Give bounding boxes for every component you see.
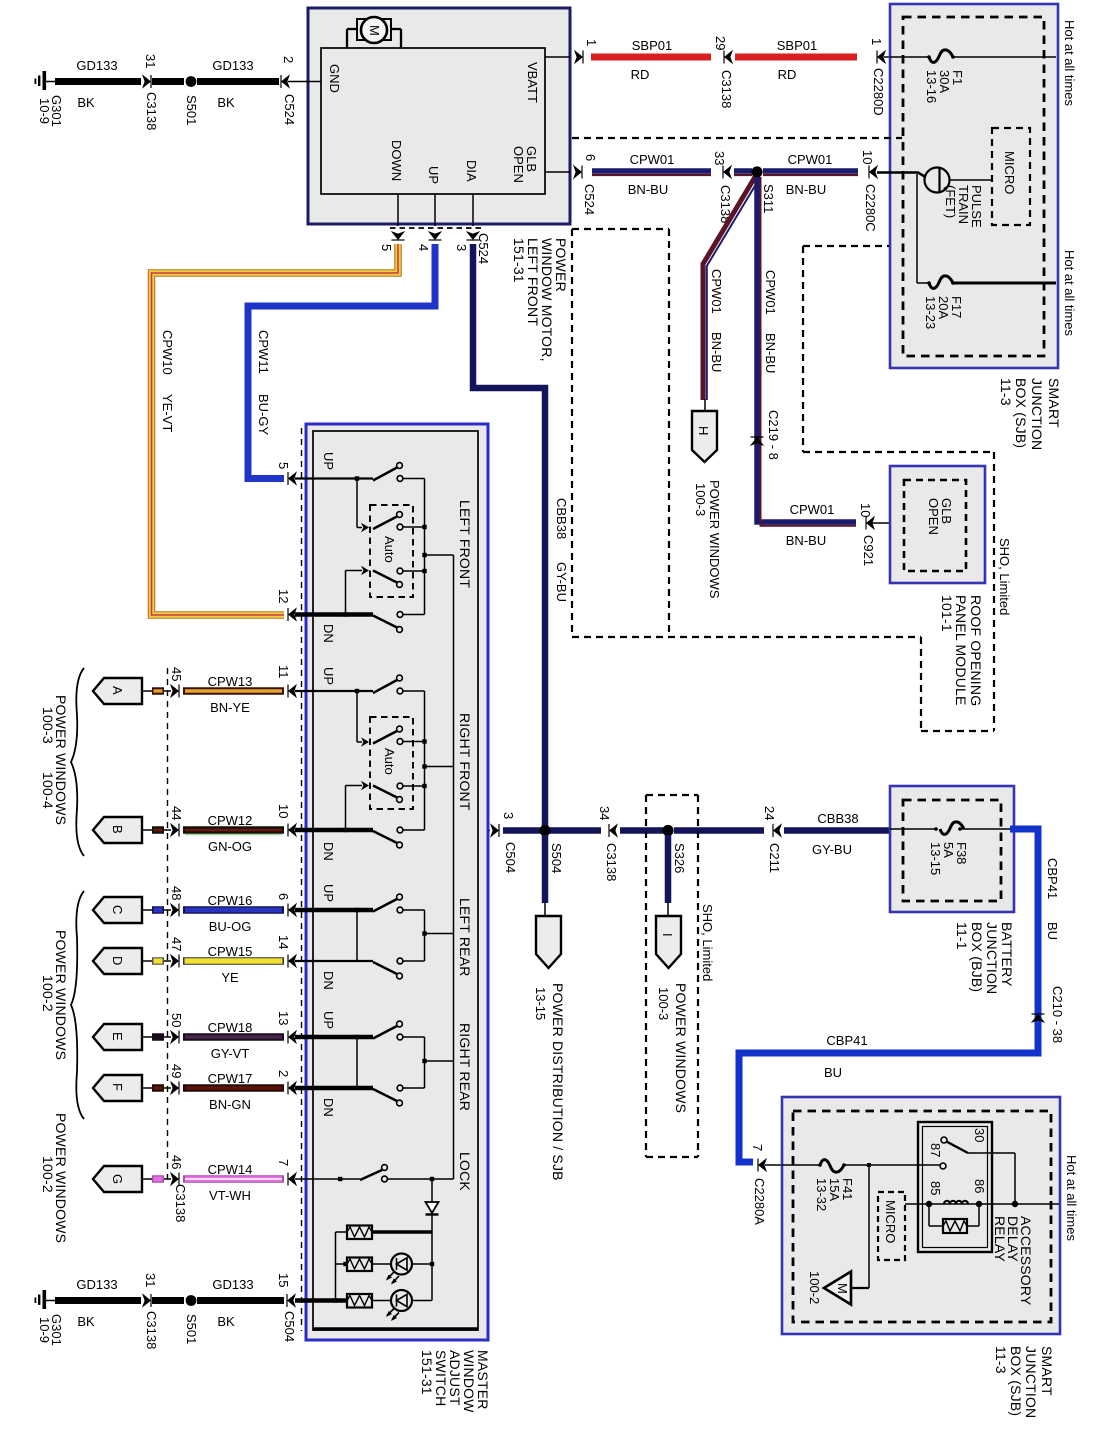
connector C3138 pin 44 xyxy=(169,806,184,837)
ground G301 top xyxy=(35,71,65,127)
svg-text:Hot at all times: Hot at all times xyxy=(1062,20,1077,106)
dashed box around H arrow xyxy=(572,229,921,637)
svg-text:Hot at all times: Hot at all times xyxy=(1062,250,1077,336)
svg-text:GY-VT: GY-VT xyxy=(211,1046,250,1061)
dashed C3138 boundary line (left) xyxy=(167,668,169,1179)
svg-text:151-31: 151-31 xyxy=(419,1350,435,1395)
LOCK feed xyxy=(295,1177,360,1181)
svg-text:YE: YE xyxy=(221,970,239,985)
wire CPW15 YE xyxy=(183,944,284,985)
label GLB OPEN xyxy=(926,498,954,535)
MICRO dashed box (relay) xyxy=(878,1192,905,1260)
svg-text:BN-YE: BN-YE xyxy=(210,700,250,715)
svg-text:B: B xyxy=(110,825,125,834)
LEFT REAR UP switch xyxy=(373,894,425,913)
svg-text:C210 - 38: C210 - 38 xyxy=(1050,986,1065,1043)
svg-text:5: 5 xyxy=(276,462,291,469)
splice S311 xyxy=(751,166,776,213)
svg-text:11-3: 11-3 xyxy=(998,378,1014,406)
connector arrow F xyxy=(93,1075,152,1101)
svg-text:BN-BU: BN-BU xyxy=(786,182,826,197)
wire CPW14 VT-WH xyxy=(183,1162,284,1203)
svg-text:33: 33 xyxy=(712,151,727,165)
wire SBP01 RD segment 2 xyxy=(735,38,857,82)
wire GND pin inside motor box xyxy=(306,81,321,83)
connector C3138 pin 31 (bottom) xyxy=(142,1273,159,1349)
lamp LED 1 xyxy=(386,1254,434,1285)
wire CBP41 BU (BJB to accessory delay relay) xyxy=(739,829,1060,1162)
connector C504 pin 13 arrow xyxy=(276,1011,297,1044)
svg-text:50: 50 xyxy=(169,1013,184,1027)
svg-text:CPW16: CPW16 xyxy=(208,893,253,908)
relay coil xyxy=(926,1179,1018,1207)
svg-text:C: C xyxy=(110,905,125,914)
connector C219-8 (on vertical wire) xyxy=(750,410,781,460)
svg-text:CPW14: CPW14 xyxy=(208,1162,253,1177)
H arrow (to POWER WINDOWS 100-3) xyxy=(692,411,717,462)
connector C2280D pin 1 xyxy=(869,38,886,116)
connector C3138 pin 29 xyxy=(713,36,734,108)
svg-text:C2280C: C2280C xyxy=(863,184,878,232)
svg-text:CPW01: CPW01 xyxy=(709,269,724,314)
brace (A-B group) xyxy=(71,668,84,856)
svg-text:GY-BU: GY-BU xyxy=(812,842,852,857)
svg-text:C2280A: C2280A xyxy=(752,1178,767,1225)
svg-text:BN-GN: BN-GN xyxy=(209,1097,251,1112)
diode xyxy=(426,1179,439,1232)
wire CBB38 to S326 xyxy=(620,827,666,834)
LEFT FRONT DN feed xyxy=(295,612,373,617)
svg-text:2: 2 xyxy=(276,1070,291,1077)
caption ROOF OPENING PANEL MODULE 101-1 xyxy=(939,595,984,706)
relay contact 30 with blade xyxy=(941,1128,987,1153)
dashed box around I arrow xyxy=(646,795,698,1157)
dashed boundary above CPW01 run xyxy=(572,137,902,139)
wire CPW17 BN-GN xyxy=(183,1071,284,1112)
svg-text:12: 12 xyxy=(276,589,291,603)
wire stub CPW16 xyxy=(152,906,171,914)
svg-text:CBB38: CBB38 xyxy=(554,498,569,539)
connector arrow D xyxy=(93,948,152,974)
wire CPW16 BU-OG xyxy=(183,893,284,934)
fuse F41 15A xyxy=(814,1160,940,1212)
wire relay 30 to hot line xyxy=(968,1153,1015,1204)
wire stub CPW12 xyxy=(152,826,171,834)
connector C504 pin 11 arrow xyxy=(276,665,297,698)
svg-text:13-32: 13-32 xyxy=(814,1178,829,1211)
connector C504 pin 3 (switch DIA output) xyxy=(478,812,518,873)
svg-text:47: 47 xyxy=(169,937,184,951)
svg-text:1: 1 xyxy=(869,38,884,45)
LEFT FRONT UP switch xyxy=(373,463,425,482)
svg-text:11: 11 xyxy=(276,665,291,679)
lamp LED 2 xyxy=(386,1290,432,1321)
wire CPW18 GY-VT xyxy=(183,1020,284,1061)
wire SBP01 RD segment 1 xyxy=(591,38,711,82)
svg-text:87: 87 xyxy=(928,1143,943,1157)
svg-text:10: 10 xyxy=(860,150,875,164)
svg-text:C2280D: C2280D xyxy=(871,68,886,116)
svg-text:31: 31 xyxy=(143,54,158,68)
svg-text:DN: DN xyxy=(321,971,336,990)
LEFT REAR bus and output xyxy=(422,910,453,961)
SJB top caption SMART JUNCTION BOX (SJB) 11-3 xyxy=(998,378,1062,450)
svg-text:SHO, Limited: SHO, Limited xyxy=(997,538,1012,615)
LEFT FRONT bus and output xyxy=(422,479,453,615)
connector C504 pin 15 xyxy=(276,1273,297,1342)
svg-text:CPW18: CPW18 xyxy=(208,1020,253,1035)
dashed C504 boundary line xyxy=(301,428,303,1331)
MICRO dashed box (SJB top) xyxy=(992,128,1030,225)
splice S326 xyxy=(662,825,687,873)
svg-text:CPW13: CPW13 xyxy=(208,674,253,689)
wire GD133 BK (ground to C3138) xyxy=(55,58,141,110)
svg-text:3: 3 xyxy=(454,244,469,251)
svg-text:(FET): (FET) xyxy=(943,185,958,218)
svg-text:I: I xyxy=(660,933,675,937)
wire CPW01 vertical from S311 to roof module xyxy=(757,177,856,526)
fuse F1 30A xyxy=(924,50,1056,103)
LEFT FRONT UP feed xyxy=(295,476,373,480)
svg-text:CPW01: CPW01 xyxy=(790,502,835,517)
page reference triangle M 100-2 xyxy=(807,1271,851,1305)
wire CBB38 to C211 xyxy=(674,827,764,834)
svg-text:DOWN: DOWN xyxy=(389,140,404,181)
svg-text:UP: UP xyxy=(321,1011,336,1029)
svg-text:Auto: Auto xyxy=(382,536,397,563)
svg-text:LEFT FRONT: LEFT FRONT xyxy=(457,500,473,588)
svg-text:POWER WINDOWS: POWER WINDOWS xyxy=(707,480,722,599)
svg-text:OPEN: OPEN xyxy=(511,146,526,183)
svg-text:UP: UP xyxy=(426,166,441,184)
svg-text:RIGHT FRONT: RIGHT FRONT xyxy=(457,713,473,811)
connector C210-38 (on CBP41) xyxy=(1031,986,1065,1043)
svg-text:C3138: C3138 xyxy=(144,1311,159,1349)
caption ACCESSORY DELAY RELAY xyxy=(992,1216,1034,1306)
resistor R1 xyxy=(347,1226,432,1240)
wire CPW01 diagonal to H (down-left) xyxy=(703,177,759,412)
lamp circuit rails xyxy=(336,1232,433,1301)
BJB inner dashed boundary xyxy=(903,800,1001,901)
svg-text:BATTERY: BATTERY xyxy=(999,922,1015,987)
smart junction box (top) xyxy=(890,4,1058,368)
wire into SJB fuse F1 xyxy=(884,56,929,58)
svg-text:BOX (SJB): BOX (SJB) xyxy=(1013,378,1029,448)
svg-text:45: 45 xyxy=(169,667,184,681)
wire CPW13 BN-YE xyxy=(183,674,284,715)
connector C504 pin 15 feed xyxy=(295,1298,347,1303)
svg-text:BN-BU: BN-BU xyxy=(709,332,724,372)
svg-text:A: A xyxy=(110,686,125,695)
svg-text:SHO, Limited: SHO, Limited xyxy=(700,904,715,981)
svg-text:BK: BK xyxy=(77,1314,95,1329)
svg-text:BN-BU: BN-BU xyxy=(786,533,826,548)
wire stub CPW18 xyxy=(152,1033,171,1041)
svg-text:C3138: C3138 xyxy=(144,92,159,130)
svg-text:30: 30 xyxy=(972,1128,987,1142)
svg-text:GD133: GD133 xyxy=(212,1277,253,1292)
svg-text:34: 34 xyxy=(597,806,612,820)
svg-text:C3138: C3138 xyxy=(173,1184,188,1222)
wire GD133 BK (splice to C524) xyxy=(197,58,279,110)
connector C504 pin 2 arrow xyxy=(276,1070,297,1095)
connector C504 pin 12 arrow xyxy=(276,589,297,622)
svg-text:29: 29 xyxy=(713,36,728,50)
svg-text:ROOF OPENING: ROOF OPENING xyxy=(968,595,984,706)
wire CBB38 GY-BU (motor DIA down) xyxy=(473,244,569,826)
svg-text:BK: BK xyxy=(217,95,235,110)
label POWER WINDOWS 100-2 (C-F) xyxy=(40,930,69,1060)
relay parallel resistor xyxy=(929,1204,979,1233)
svg-text:D: D xyxy=(110,956,125,965)
connector C504 pin 10 arrow xyxy=(276,804,297,837)
accessory delay relay box xyxy=(918,1122,992,1252)
svg-text:CPW10: CPW10 xyxy=(160,330,175,375)
wire to page-reference triangle xyxy=(851,1165,869,1288)
svg-text:E: E xyxy=(110,1032,125,1041)
svg-text:BOX (SJB): BOX (SJB) xyxy=(1008,1346,1024,1416)
junction to page-reference triangle xyxy=(867,1163,871,1167)
connector C3138 pin 49 xyxy=(169,1064,184,1095)
smart junction box (bottom) xyxy=(782,1097,1060,1334)
svg-text:100-3: 100-3 xyxy=(40,707,56,744)
svg-text:CBP41: CBP41 xyxy=(1045,858,1060,899)
thick inner bottom border xyxy=(313,1327,478,1331)
master window adjust switch box outer xyxy=(306,424,488,1340)
connector C3138 pin 33 xyxy=(712,151,733,223)
connector arrow A xyxy=(93,678,152,704)
wire stub CPW13 xyxy=(152,687,171,695)
svg-text:11-3: 11-3 xyxy=(993,1346,1009,1374)
battery junction box (BJB) xyxy=(890,786,1014,912)
fuse F38 5A xyxy=(890,822,1012,875)
connector C3138 pin 45 xyxy=(169,667,184,698)
svg-text:C219 - 8: C219 - 8 xyxy=(766,410,781,460)
connector C504 pin 7 arrow xyxy=(276,1159,297,1186)
wire CPW12 GN-OG xyxy=(183,813,284,854)
svg-text:DIA: DIA xyxy=(464,160,479,182)
connector C2280C pin 10 xyxy=(860,150,878,232)
svg-text:5: 5 xyxy=(379,244,394,251)
svg-text:UP: UP xyxy=(321,884,336,902)
power window motor box outer xyxy=(308,8,570,224)
power window motor inner box xyxy=(321,48,545,194)
RIGHT REAR DN switch xyxy=(373,1085,425,1106)
svg-text:15: 15 xyxy=(276,1273,291,1287)
svg-text:UP: UP xyxy=(321,452,336,470)
svg-text:C504: C504 xyxy=(503,842,518,873)
wire GD133 segment to splice xyxy=(152,78,184,85)
svg-text:CPW11: CPW11 xyxy=(256,330,271,374)
svg-text:JUNCTION: JUNCTION xyxy=(1023,1346,1039,1418)
C524 pin 5 arrow (DOWN) xyxy=(379,231,405,251)
svg-text:SMART: SMART xyxy=(1046,378,1062,428)
wire CPW01 BN-BU segment 1 xyxy=(592,152,711,197)
wire CBB38 junction row xyxy=(503,827,601,834)
svg-text:2: 2 xyxy=(281,56,296,63)
svg-text:C921: C921 xyxy=(861,535,876,566)
svg-text:CBP41: CBP41 xyxy=(826,1033,867,1048)
svg-text:BOX (BJB): BOX (BJB) xyxy=(969,922,985,992)
svg-text:13-15: 13-15 xyxy=(928,842,943,875)
splice S501 (top) xyxy=(184,76,199,125)
wire stub CPW15 xyxy=(152,957,171,965)
connector C3138 pin 31 (top) xyxy=(142,54,159,130)
svg-text:DN: DN xyxy=(321,624,336,643)
GLB OPEN inner dashed box xyxy=(904,480,966,571)
RIGHT REAR UP switch xyxy=(373,1021,425,1040)
svg-text:RD: RD xyxy=(778,67,797,82)
svg-text:GD133: GD133 xyxy=(76,58,117,73)
connector C3138 pin 50 xyxy=(169,1013,184,1044)
connector C504 pin 14 arrow xyxy=(276,935,297,968)
C524 dashed connector boundary under motor xyxy=(390,227,481,229)
motor M symbol xyxy=(347,17,401,48)
wire GD133 segment to splice (bottom) xyxy=(152,1297,184,1304)
svg-text:C524: C524 xyxy=(476,233,491,264)
wire C2280A to F41 inside SJB xyxy=(782,1164,820,1166)
motor bottom pin lines DOWN/UP/DIA xyxy=(398,194,473,226)
svg-text:Auto: Auto xyxy=(382,748,397,775)
SJB bottom inner dashed boundary xyxy=(793,1111,1051,1322)
svg-text:S501: S501 xyxy=(184,95,199,125)
ground G301 bottom xyxy=(35,1290,65,1346)
svg-text:YE-VT: YE-VT xyxy=(160,394,175,432)
svg-text:4: 4 xyxy=(416,244,431,251)
LEFT FRONT auto up switch xyxy=(357,479,427,533)
svg-text:13: 13 xyxy=(276,1011,291,1025)
RIGHT FRONT UP feed xyxy=(295,689,373,693)
svg-text:GND: GND xyxy=(327,64,342,93)
wire GD133 BK (bottom, ground to C3138) xyxy=(55,1277,141,1329)
C524 pin 3 arrow (DIA) xyxy=(454,231,491,264)
svg-text:6: 6 xyxy=(583,154,598,161)
RIGHT REAR DN feed xyxy=(295,1086,373,1091)
RIGHT FRONT UP switch xyxy=(373,675,425,694)
svg-text:BU: BU xyxy=(1045,922,1060,940)
svg-text:RELAY: RELAY xyxy=(992,1216,1008,1262)
connector arrow B xyxy=(93,817,152,843)
wire CPW10 YE-VT (motor DOWN to switch pin 12) xyxy=(152,244,399,615)
svg-text:POWER WINDOWS: POWER WINDOWS xyxy=(673,983,689,1113)
svg-text:UP: UP xyxy=(321,667,336,685)
connector C211 pin 24 xyxy=(762,806,782,873)
connector C504 pin 6 arrow xyxy=(276,893,297,917)
connector C3138 pin 46 xyxy=(169,1155,184,1186)
caption MASTER WINDOW ADJUST SWITCH 151-31 xyxy=(419,1350,491,1413)
svg-text:13-23: 13-23 xyxy=(923,296,938,329)
svg-text:31: 31 xyxy=(143,1273,158,1287)
wire CBB38 GY-BU into RJB xyxy=(784,811,890,857)
LEFT FRONT auto down switch xyxy=(343,566,426,617)
svg-text:44: 44 xyxy=(169,806,184,820)
svg-text:G: G xyxy=(110,1174,125,1184)
svg-text:DN: DN xyxy=(321,1098,336,1117)
fuse F17 20A xyxy=(923,276,1056,329)
svg-text:VT-WH: VT-WH xyxy=(209,1188,251,1203)
svg-text:BK: BK xyxy=(77,95,95,110)
svg-text:GY-BU: GY-BU xyxy=(554,562,569,602)
LOCK switch xyxy=(360,1165,454,1182)
svg-text:10-9: 10-9 xyxy=(37,1317,52,1343)
svg-text:M: M xyxy=(835,1283,850,1294)
svg-text:24: 24 xyxy=(762,806,777,820)
svg-text:BK: BK xyxy=(217,1314,235,1329)
brace (C-F group) xyxy=(71,891,84,1119)
label POWER WINDOWS 100-3 100-4 xyxy=(40,695,69,825)
splice S501 (bottom) xyxy=(184,1295,199,1344)
wire GD133 BK (bottom, splice to C504) xyxy=(197,1277,284,1329)
svg-text:100-2: 100-2 xyxy=(40,1156,56,1193)
svg-text:C3138: C3138 xyxy=(719,70,734,108)
connector arrow E xyxy=(93,1024,152,1050)
connector C3138 pin 48 xyxy=(169,886,184,917)
power distribution / SJB arrow xyxy=(533,916,566,1181)
labels CPW01 BN-BU (roof run) xyxy=(786,502,835,548)
LEFT FRONT auto box xyxy=(370,505,413,597)
svg-text:6: 6 xyxy=(276,893,291,900)
LEFT REAR UP feed xyxy=(295,908,373,961)
svg-text:13-16: 13-16 xyxy=(924,70,939,103)
motor caption POWER WINDOW MOTOR, LEFT FRONT 151-31 xyxy=(511,238,569,362)
svg-text:10: 10 xyxy=(276,804,291,818)
svg-text:Hot at all times: Hot at all times xyxy=(1064,1155,1079,1241)
svg-text:C211: C211 xyxy=(767,843,782,873)
svg-text:100-3: 100-3 xyxy=(693,483,708,516)
svg-text:49: 49 xyxy=(169,1064,184,1078)
svg-text:JUNCTION: JUNCTION xyxy=(1029,378,1045,450)
splice S504 xyxy=(539,825,564,873)
svg-text:VBATT: VBATT xyxy=(525,62,540,103)
svg-text:3: 3 xyxy=(501,812,516,819)
svg-text:RIGHT REAR: RIGHT REAR xyxy=(457,1023,473,1111)
connector C3138 pin 34 xyxy=(597,806,619,881)
svg-text:101-1: 101-1 xyxy=(939,595,955,632)
svg-text:85: 85 xyxy=(928,1181,943,1195)
RIGHT FRONT DN switch xyxy=(373,827,425,848)
LEFT REAR DN switch xyxy=(373,958,425,979)
resistor R3 xyxy=(333,1294,391,1308)
VBATT pin line and C524 pin 1 arrow xyxy=(545,39,599,64)
svg-text:10: 10 xyxy=(858,503,873,517)
connector C524 pin 2 xyxy=(281,56,297,125)
svg-text:SBP01: SBP01 xyxy=(777,38,817,53)
RIGHT FRONT bus and output xyxy=(422,691,453,830)
RIGHT REAR UP feed xyxy=(295,1035,373,1088)
SJB inner dashed boundary xyxy=(903,17,1044,356)
svg-text:BN-BU: BN-BU xyxy=(628,182,668,197)
connector C921 pin 10 xyxy=(858,503,890,566)
RIGHT FRONT auto up switch xyxy=(357,691,427,747)
svg-text:BU: BU xyxy=(824,1065,842,1080)
svg-text:SMART: SMART xyxy=(1039,1346,1055,1396)
svg-text:GD133: GD133 xyxy=(76,1277,117,1292)
dashed region around roof opening panel module xyxy=(803,246,994,731)
svg-text:CPW17: CPW17 xyxy=(208,1071,253,1086)
svg-text:JUNCTION: JUNCTION xyxy=(984,922,1000,994)
svg-text:86: 86 xyxy=(972,1179,987,1193)
svg-text:S504: S504 xyxy=(549,843,564,873)
svg-text:DN: DN xyxy=(321,842,336,861)
svg-text:H: H xyxy=(696,426,711,435)
RIGHT REAR bus and output xyxy=(422,1037,453,1088)
svg-text:C3138: C3138 xyxy=(604,843,619,881)
svg-text:CPW01: CPW01 xyxy=(630,152,675,167)
svg-text:100-4: 100-4 xyxy=(40,772,56,809)
svg-text:S501: S501 xyxy=(184,1314,199,1344)
connector C3138 pin 47 xyxy=(169,937,184,968)
svg-text:LEFT REAR: LEFT REAR xyxy=(457,898,473,977)
